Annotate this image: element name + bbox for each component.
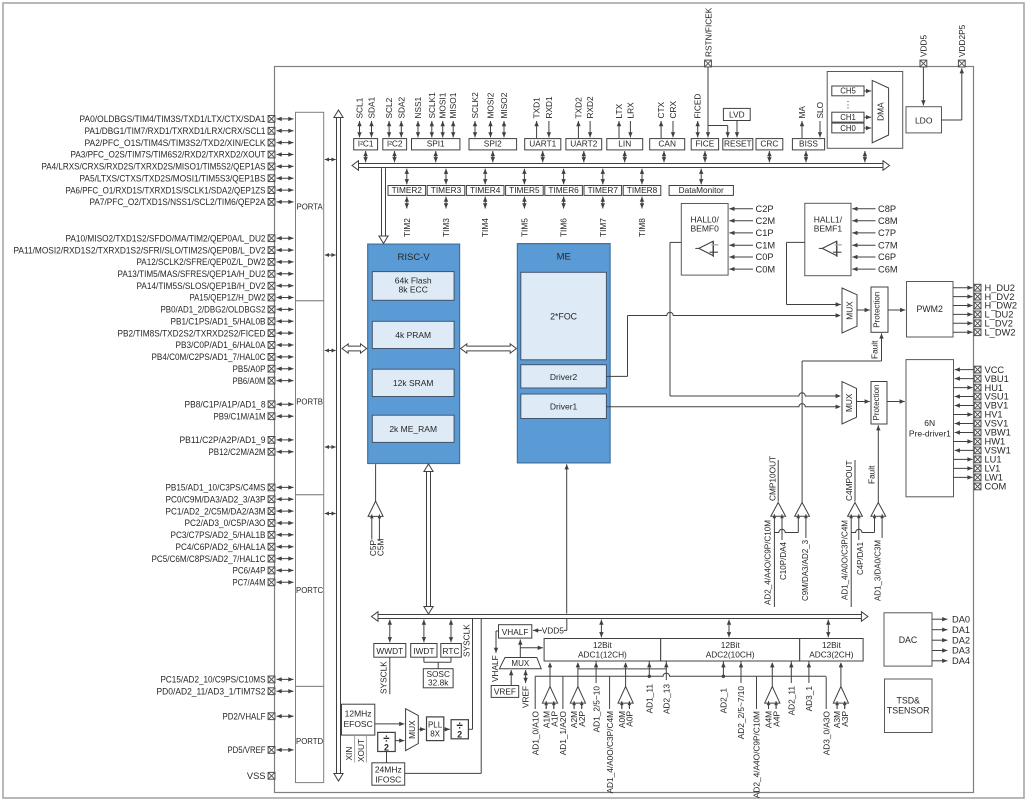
- svg-text:CMP10OUT: CMP10OUT: [767, 456, 777, 501]
- SOSC 32.8k block: [423, 669, 453, 688]
- wire bus to TIMER4: [483, 169, 487, 185]
- pin VBW1: [955, 428, 1011, 438]
- pin VDD5: [919, 34, 929, 66]
- svg-text:DataMonitor: DataMonitor: [679, 185, 724, 195]
- svg-text:PA1/DBG1/TIM7/RXD1/TXRXD1/LRX/: PA1/DBG1/TIM7/RXD1/TXRXD1/LRX/CRX/SCL1: [85, 126, 266, 136]
- svg-text:PA7/PFC_O2/TXD1S/NSS1/SCL2/TIM: PA7/PFC_O2/TXD1S/NSS1/SCL2/TIM6/QEP2A: [90, 197, 267, 207]
- peripheral block BISS: [792, 139, 824, 150]
- signal AD1_0/A1O: [530, 676, 540, 755]
- pin LW1: [954, 473, 1003, 483]
- svg-text:SDA2: SDA2: [396, 96, 406, 118]
- svg-text:PD0/AD2_11/AD3_1/TIM7S2: PD0/AD2_11/AD3_1/TIM7S2: [157, 686, 266, 696]
- svg-text:DA0: DA0: [952, 614, 970, 624]
- svg-text:DA4: DA4: [952, 656, 970, 666]
- LVD block: [723, 108, 750, 120]
- signal XIN: [344, 735, 354, 762]
- svg-text:VHALF: VHALF: [502, 627, 529, 637]
- svg-text:C0M: C0M: [756, 264, 776, 274]
- svg-text:12k SRAM: 12k SRAM: [393, 378, 434, 388]
- wire IWDT RTC to SOSC: [424, 657, 451, 669]
- svg-text:CH1: CH1: [840, 113, 856, 122]
- signal CRX: [668, 101, 678, 138]
- DataMonitor block: [669, 185, 733, 196]
- wire RSTN to FICE and RESET: [706, 67, 730, 137]
- svg-text:2: 2: [384, 742, 389, 752]
- svg-text:AD2_11: AD2_11: [787, 686, 797, 716]
- svg-text:MISO1: MISO1: [448, 92, 458, 118]
- pin VSW1: [955, 446, 1011, 456]
- svg-text:AD1_4/A0O/C3P/C4M: AD1_4/A0O/C3P/C4M: [840, 520, 850, 600]
- amplifier A0: [618, 662, 633, 708]
- comparator CMP3 (C4MPOUT): [844, 460, 862, 518]
- pin HV1: [954, 410, 1003, 420]
- svg-text:XIN: XIN: [344, 747, 354, 761]
- peripheral block UART1: [525, 139, 561, 150]
- svg-text:DA2: DA2: [952, 635, 970, 645]
- svg-text:AD3_1: AD3_1: [804, 686, 814, 712]
- IWDT block: [411, 644, 437, 658]
- signal C6P: [852, 252, 896, 262]
- signal AD2_1: [719, 661, 729, 713]
- wire VDD5 to VHALF: [533, 619, 567, 636]
- svg-text:PB8/C1P/A1P/AD1_8: PB8/C1P/A1P/AD1_8: [185, 400, 266, 410]
- signal C8M: [852, 216, 897, 226]
- divider /2 block A: [378, 732, 396, 752]
- svg-text:L_DW2: L_DW2: [985, 327, 1016, 337]
- PLL 8X block: [427, 717, 444, 741]
- VREF block: [491, 686, 519, 698]
- wire bus to DataMonitor: [699, 169, 703, 185]
- signal AD2_4/A4O/C9P/C10M: [752, 677, 762, 798]
- svg-text:PWM2: PWM2: [916, 304, 942, 314]
- svg-text:PLL: PLL: [428, 720, 443, 729]
- wire comparator2 fault to Protection1: [802, 333, 884, 502]
- svg-text:AD3_0/A3O: AD3_0/A3O: [821, 710, 831, 755]
- timer block TIMER7: [584, 185, 622, 196]
- pin HW1: [954, 437, 1006, 447]
- wire bus to TIMER3: [444, 169, 448, 185]
- svg-text:PD2/VHALF: PD2/VHALF: [223, 711, 266, 721]
- svg-text:UART2: UART2: [570, 139, 597, 149]
- signal LRX: [625, 102, 635, 138]
- svg-text:TIM4: TIM4: [480, 218, 490, 237]
- signal CTX: [656, 101, 666, 138]
- svg-text:CH5: CH5: [840, 87, 856, 96]
- svg-text:BEMF1: BEMF1: [814, 224, 843, 234]
- wire bus to TIMER5: [522, 169, 526, 185]
- wire ADC analog rail A: [578, 668, 666, 670]
- svg-text:AD1_3/DA0/C3M: AD1_3/DA0/C3M: [872, 540, 882, 601]
- PWM2 block: [907, 282, 954, 338]
- svg-text:SCL1: SCL1: [355, 97, 365, 118]
- signal C6M: [852, 264, 897, 274]
- pin VSV1: [955, 419, 1009, 429]
- svg-text:PORTB: PORTB: [296, 398, 323, 407]
- pin LU1: [954, 455, 1002, 465]
- svg-text:AD2_4/A4O/C9P/C10M: AD2_4/A4O/C9P/C10M: [752, 711, 762, 798]
- pin PC6 (PC6/A4P): [233, 566, 294, 576]
- wire LIN to peripheral bus: [623, 151, 627, 162]
- signal A3P: [840, 703, 850, 727]
- signal VREF stub: [520, 670, 530, 708]
- svg-text:TIM2: TIM2: [402, 218, 412, 237]
- wire bus to TIMER2: [405, 169, 409, 185]
- pin PA5 (PA5/LTXS/CTXS/TXD2S/MOSI1/TIM5S3/QEP1BS): [80, 173, 294, 183]
- svg-text:C10P/DA4: C10P/DA4: [778, 542, 788, 580]
- svg-text:MOSI2: MOSI2: [486, 92, 496, 118]
- amplifier A1: [542, 662, 557, 708]
- wire bus to ADC3: [826, 620, 830, 638]
- svg-text:WWDT: WWDT: [376, 646, 403, 656]
- RTC block: [441, 644, 462, 658]
- svg-text:SPI1: SPI1: [427, 139, 445, 149]
- svg-text:PA13/TIM5/MAS/SFRES/QEP1A/H_DU: PA13/TIM5/MAS/SFRES/QEP1A/H_DU2: [118, 269, 266, 279]
- wire I2C2 to peripheral bus: [392, 151, 396, 162]
- svg-text:IFOSC: IFOSC: [375, 774, 401, 784]
- signal A2M: [569, 703, 579, 728]
- ADC2 12bit block: [661, 639, 800, 662]
- svg-text:2: 2: [457, 730, 462, 740]
- wire CH1 to DMA mux: [864, 115, 871, 119]
- wire port-to-bus arrow 5: [325, 512, 336, 516]
- svg-text:6N: 6N: [924, 418, 935, 428]
- pin HU1: [954, 383, 1004, 393]
- svg-text:MA: MA: [797, 106, 807, 119]
- pin PD0 (PD0/AD2_11/AD3_1/TIM7S2): [157, 686, 294, 696]
- wire CH5 to DMA mux: [864, 89, 871, 93]
- signal C4P/DA1: [855, 516, 865, 575]
- svg-text:ADC3(2CH): ADC3(2CH): [809, 650, 853, 660]
- wire ADC analog rail B: [535, 673, 826, 678]
- svg-text:VHALF: VHALF: [490, 655, 500, 682]
- wire bus to IWDT: [422, 620, 426, 643]
- pin H_DW2: [953, 301, 1017, 311]
- svg-text:A0P: A0P: [625, 711, 635, 727]
- wire clock MUX to PLL: [418, 727, 425, 731]
- pin PC1 (PC1/AD2_2/C5M/DA2/A3M): [166, 506, 294, 516]
- signal C7M: [852, 240, 897, 250]
- svg-text:C6P: C6P: [878, 252, 896, 262]
- svg-text:RTC: RTC: [443, 646, 460, 656]
- svg-text:A3P: A3P: [840, 711, 850, 727]
- wire PLL to divider B: [444, 727, 450, 731]
- comparator CMP4: [871, 503, 886, 519]
- HALL0/BEMF0 block: [681, 204, 728, 276]
- svg-text:12Bit: 12Bit: [721, 640, 741, 650]
- signal TXD1: [532, 97, 542, 138]
- svg-text:ME: ME: [557, 251, 571, 262]
- memory 12k SRAM: [372, 369, 454, 396]
- GPIO port column PORTA: [296, 112, 324, 300]
- signal A2P: [577, 703, 587, 727]
- wire CAN to peripheral bus: [662, 151, 666, 162]
- signal DA4: [932, 656, 970, 666]
- svg-text:MUX: MUX: [511, 659, 529, 668]
- timer block TIMER2: [388, 185, 426, 196]
- signal TIM8: [637, 197, 647, 237]
- pin PA15 (PA15/QEP1Z/H_DW2): [190, 293, 294, 303]
- wire bus to ADC1: [599, 620, 603, 638]
- svg-text:VREF: VREF: [494, 687, 516, 697]
- svg-text:EFOSC: EFOSC: [343, 719, 372, 729]
- wire lower bus to ME: [565, 464, 569, 613]
- signal SCLK2: [470, 92, 480, 138]
- svg-text:Protection: Protection: [872, 384, 881, 420]
- pin PA4 (PA4/LRXS/CRXS/RXD2S/TXRXD2S/MISO1/TIM5S2/QEP1AS): [42, 162, 294, 172]
- timer block TIMER4: [466, 185, 504, 196]
- pin PD5 (PD5/VREF): [228, 745, 294, 755]
- peripheral block I²C2: [383, 139, 407, 150]
- 12MHz EFOSC block: [342, 704, 375, 735]
- RISC-V CPU block: [368, 244, 460, 463]
- pin PB8 (PB8/C1P/A1P/AD1_8): [185, 400, 294, 410]
- svg-text:TIM8: TIM8: [637, 218, 647, 237]
- svg-text:PA4/LRXS/CRXS/RXD2S/TXRXD2S/MI: PA4/LRXS/CRXS/RXD2S/TXRXD2S/MISO1/TIM5S2…: [42, 162, 266, 172]
- signal RXD2: [585, 96, 595, 137]
- svg-text:BEMF0: BEMF0: [691, 224, 720, 234]
- svg-text:PB3/C0P/AD1_6/HAL0A: PB3/C0P/AD1_6/HAL0A: [176, 340, 267, 350]
- bus system-bus to RISC-V: [342, 344, 367, 353]
- svg-text:PB2/TIM8S/TXD2S2/TXRXD2S2/FICE: PB2/TIM8S/TXD2S2/TXRXD2S2/FICED: [118, 328, 266, 338]
- svg-text:DMA: DMA: [876, 102, 886, 121]
- Driver1 block: [521, 394, 607, 419]
- svg-text:AD1_11: AD1_11: [645, 684, 655, 714]
- pin VCC: [955, 365, 1005, 375]
- pin L_DV2: [953, 319, 1013, 329]
- pin PA0 (PA0/OLDBGS/TIM4/TIM3S/TXD1/LTX/CTX/SDA1): [80, 114, 294, 124]
- svg-text:C7P: C7P: [878, 228, 896, 238]
- pin PB2 (PB2/TIM8S/TXD2S2/TXRXD2S2/FICED): [118, 328, 294, 338]
- signal SLO: [815, 101, 825, 137]
- svg-text:UART1: UART1: [529, 139, 556, 149]
- comparator CMP1 (CMP10OUT): [767, 456, 785, 518]
- DMA channel dots: [844, 100, 853, 110]
- pin VSU1: [955, 392, 1009, 402]
- svg-text:SPI2: SPI2: [484, 139, 502, 149]
- wire LVD to RESET: [735, 121, 739, 138]
- svg-text:PA6/PFC_O1/RXD1S/TXRXD1S/SCLK1: PA6/PFC_O1/RXD1S/TXRXD1S/SCLK1/SDA2/QEP1…: [66, 185, 266, 195]
- DMA mux trapezoid: [872, 80, 888, 142]
- timer block TIMER8: [623, 185, 661, 196]
- peripheral block CRC: [756, 139, 783, 150]
- wire bus to RTC: [449, 620, 453, 643]
- svg-text:4k PRAM: 4k PRAM: [395, 330, 431, 340]
- svg-text:C2M: C2M: [756, 216, 776, 226]
- svg-text:A4P: A4P: [771, 711, 781, 727]
- wire SPI1 to peripheral bus: [434, 151, 438, 162]
- wire port-to-bus arrow 1: [325, 158, 336, 162]
- pin VBV1: [955, 401, 1009, 411]
- pin L_DU2: [953, 310, 1013, 320]
- wire bus to TIMER6: [561, 169, 565, 185]
- pin PD2 (PD2/VHALF): [223, 711, 294, 721]
- wire HALL1 to MUX1: [787, 242, 841, 306]
- pin VBU1: [955, 374, 1009, 384]
- svg-text:MUX: MUX: [407, 720, 417, 739]
- ME motor engine block: [517, 244, 610, 463]
- signal AD2_4/A4O/C9P/C10M (comparator): [763, 516, 775, 607]
- svg-text:PORTD: PORTD: [296, 737, 324, 746]
- WWDT block: [374, 644, 406, 658]
- wire UART2 to peripheral bus: [582, 151, 586, 162]
- svg-text:RXD2: RXD2: [585, 96, 595, 119]
- signal DA0: [932, 614, 970, 624]
- svg-text:C8M: C8M: [878, 216, 898, 226]
- signal NSS1: [413, 96, 423, 137]
- signal C2P: [729, 204, 773, 214]
- svg-text:DA3: DA3: [952, 646, 970, 656]
- svg-text:PA10/MISO2/TXD1S2/SFDO/MA/TIM2: PA10/MISO2/TXD1S2/SFDO/MA/TIM2/QEP0A/L_D…: [66, 233, 266, 243]
- signal A0P: [625, 703, 635, 727]
- signal MISO1: [448, 92, 458, 137]
- svg-text:VSS: VSS: [247, 771, 266, 781]
- pin PC7 (PC7/A4M): [233, 578, 294, 588]
- signal AD1_3/DA0/C3M: [872, 516, 882, 601]
- svg-text:SCLK2: SCLK2: [470, 92, 480, 119]
- svg-text:CTX: CTX: [656, 101, 666, 118]
- svg-text:PA5/LTXS/CTXS/TXD2S/MOSI1/TIM5: PA5/LTXS/CTXS/TXD2S/MOSI1/TIM5S3/QEP1BS: [80, 173, 266, 183]
- pin PB1 (PB1/C1PS/AD1_5/HAL0B): [171, 317, 294, 327]
- svg-text:AD2_13: AD2_13: [662, 684, 672, 714]
- GPIO port column PORTC: [296, 495, 324, 687]
- signal TIM7: [598, 197, 608, 237]
- wire LDO to VDD2P5: [942, 68, 965, 120]
- svg-text:C4MPOUT: C4MPOUT: [844, 460, 854, 501]
- bus RISC-V to lower bus: [424, 464, 433, 614]
- svg-text:8X: 8X: [430, 729, 440, 738]
- wire comparator4 fault to Protection2: [867, 425, 881, 502]
- 2*FOC block: [521, 272, 607, 360]
- pin PC2 (PC2/AD3_0/C5P/A3O): [185, 518, 294, 528]
- wire IFOSC to divider A: [386, 752, 388, 763]
- signal TIM5: [519, 197, 529, 237]
- peripheral block LIN: [607, 139, 643, 150]
- svg-text:AD1_0/A1O: AD1_0/A1O: [530, 710, 540, 755]
- bus RISC-V to ME: [461, 344, 517, 353]
- signal A4M: [764, 703, 774, 728]
- signal A1P: [549, 703, 559, 727]
- comparator CMP2: [795, 503, 810, 519]
- Protection1 block: [871, 287, 888, 332]
- svg-text:MUX: MUX: [845, 301, 855, 320]
- wire Driver1 to MUX2: [606, 404, 840, 409]
- svg-text:SCLK1: SCLK1: [427, 92, 437, 119]
- svg-text:TIM5: TIM5: [519, 218, 529, 237]
- signal C10P/DA4: [778, 516, 788, 580]
- signal AD1_2/5~10: [591, 661, 601, 732]
- wire bus to WWDT: [388, 620, 392, 643]
- svg-text:IWDT: IWDT: [413, 646, 434, 656]
- svg-text:C0P: C0P: [756, 252, 774, 262]
- svg-text:12MHz: 12MHz: [345, 708, 372, 718]
- signal MOSI2: [486, 92, 496, 137]
- svg-text:BISS: BISS: [799, 139, 818, 149]
- svg-text:DA1: DA1: [952, 625, 970, 635]
- signal C7P: [852, 228, 896, 238]
- pin COM: [974, 482, 1006, 492]
- wire BISS to peripheral bus: [804, 151, 808, 162]
- wire port-to-bus arrow 4: [325, 445, 336, 449]
- pin VDD2P5: [957, 24, 967, 67]
- wire Driver2 to MUX1: [606, 312, 840, 376]
- MUX1 pwm path: [842, 288, 857, 333]
- signal AD3_1: [804, 661, 814, 711]
- wire HALL0 to MUX2: [670, 242, 841, 398]
- signal SDA2: [396, 96, 406, 137]
- peripheral block SPI1: [412, 139, 460, 150]
- memory 64k Flash 8k ECC: [372, 272, 454, 301]
- svg-text:LIN: LIN: [618, 139, 631, 149]
- signal C0P: [729, 252, 773, 262]
- signal XOUT: [356, 735, 366, 762]
- signal A0M: [617, 703, 627, 728]
- signal C2M: [729, 216, 775, 226]
- svg-text:CRX: CRX: [668, 101, 678, 119]
- pin PB0 (PB0/AD1_2/DBG2/OLDBGS2): [161, 305, 294, 315]
- signal A1M: [542, 703, 552, 728]
- Driver2 block: [521, 365, 607, 388]
- wire CMP3 input jog to CMP4: [851, 516, 874, 532]
- memory 4k PRAM: [372, 321, 454, 348]
- DMA channel CH5: [832, 86, 864, 96]
- svg-text:PC5/C6M/C8PS/AD2_7/HAL1C: PC5/C6M/C8PS/AD2_7/HAL1C: [152, 554, 266, 564]
- svg-text:Driver2: Driver2: [550, 372, 578, 382]
- svg-text:PC4/C6P/AD2_6/HAL1A: PC4/C6P/AD2_6/HAL1A: [176, 542, 267, 552]
- pin PC4 (PC4/C6P/AD2_6/HAL1A): [176, 542, 294, 552]
- wire I2C1 to peripheral bus: [363, 151, 367, 162]
- pin PB9 (PB9/C1M/A1M): [214, 411, 294, 421]
- svg-text:RISC-V: RISC-V: [397, 252, 430, 263]
- pin PA1 (PA1/DBG1/TIM7/RXD1/TXRXD1/LRX/CRX/SCL1): [85, 126, 294, 136]
- ADC1 12bit block: [544, 639, 661, 662]
- Protection2 block: [871, 382, 887, 425]
- svg-text:VDD5: VDD5: [542, 626, 565, 636]
- divider /2 block B: [451, 720, 468, 740]
- wire divider B to ADC bus (SYSCLK): [461, 619, 472, 730]
- svg-text:FICED: FICED: [693, 94, 703, 119]
- svg-text:VDD2P5: VDD2P5: [957, 24, 967, 57]
- svg-text:COM: COM: [985, 482, 1007, 492]
- pin PB5 (PB5/A0P): [233, 364, 294, 374]
- peripheral block SPI2: [469, 139, 517, 150]
- HALL1/BEMF1 block: [805, 203, 851, 275]
- peripheral block RESET: [723, 139, 753, 150]
- svg-text:I²C2: I²C2: [387, 139, 403, 149]
- svg-text:PB1/C1PS/AD1_5/HAL0B: PB1/C1PS/AD1_5/HAL0B: [171, 317, 266, 327]
- svg-text:MOSI1: MOSI1: [438, 92, 448, 118]
- signal SCL1: [355, 97, 365, 137]
- pin H_DV2: [953, 292, 1014, 302]
- svg-text:PB0/AD1_2/DBG2/OLDBGS2: PB0/AD1_2/DBG2/OLDBGS2: [161, 305, 266, 315]
- signal AD3_0/A3O: [821, 677, 831, 756]
- pin PC3 (PC3/C7PS/AD2_5/HAL1B): [171, 530, 294, 540]
- signal DA3: [932, 646, 970, 656]
- pin PA14 (PA14/TIM5S/SLOS/QEP1B/H_DV2): [137, 281, 294, 291]
- signal MOSI1: [438, 92, 448, 137]
- svg-text:TIMER5: TIMER5: [509, 185, 540, 195]
- signal TIM6: [559, 197, 569, 237]
- timer block TIMER5: [506, 185, 544, 196]
- svg-text:FICE: FICE: [695, 139, 714, 149]
- svg-text:LRX: LRX: [625, 102, 635, 119]
- signal AD2_11: [787, 661, 797, 715]
- svg-text:AD1_1/A2O: AD1_1/A2O: [558, 710, 568, 755]
- signal AD1_4/A0O/C3P/C4M: [605, 676, 615, 793]
- svg-text:C6M: C6M: [878, 264, 898, 274]
- 6N Pre-driver1 block: [906, 360, 954, 497]
- bus peripheral-bus to RISC-V: [379, 168, 388, 243]
- signal MISO2: [499, 92, 509, 137]
